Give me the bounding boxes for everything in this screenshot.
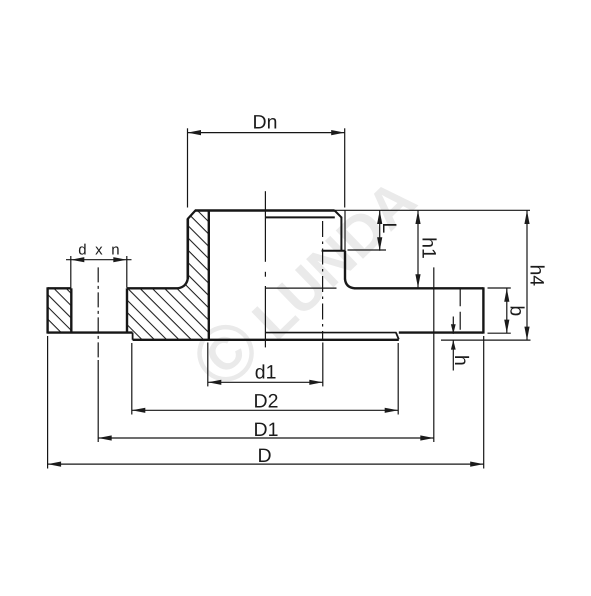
svg-text:b: b (506, 305, 528, 316)
svg-text:Dn: Dn (253, 111, 278, 133)
svg-text:D1: D1 (254, 419, 279, 441)
svg-text:D: D (257, 445, 271, 467)
svg-text:h4: h4 (526, 264, 548, 286)
svg-text:d x n: d x n (78, 241, 122, 258)
svg-text:h1: h1 (417, 237, 439, 259)
svg-text:h: h (450, 355, 472, 366)
svg-text:D2: D2 (254, 391, 279, 413)
svg-text:d1: d1 (255, 362, 277, 384)
svg-text:L: L (378, 222, 400, 233)
